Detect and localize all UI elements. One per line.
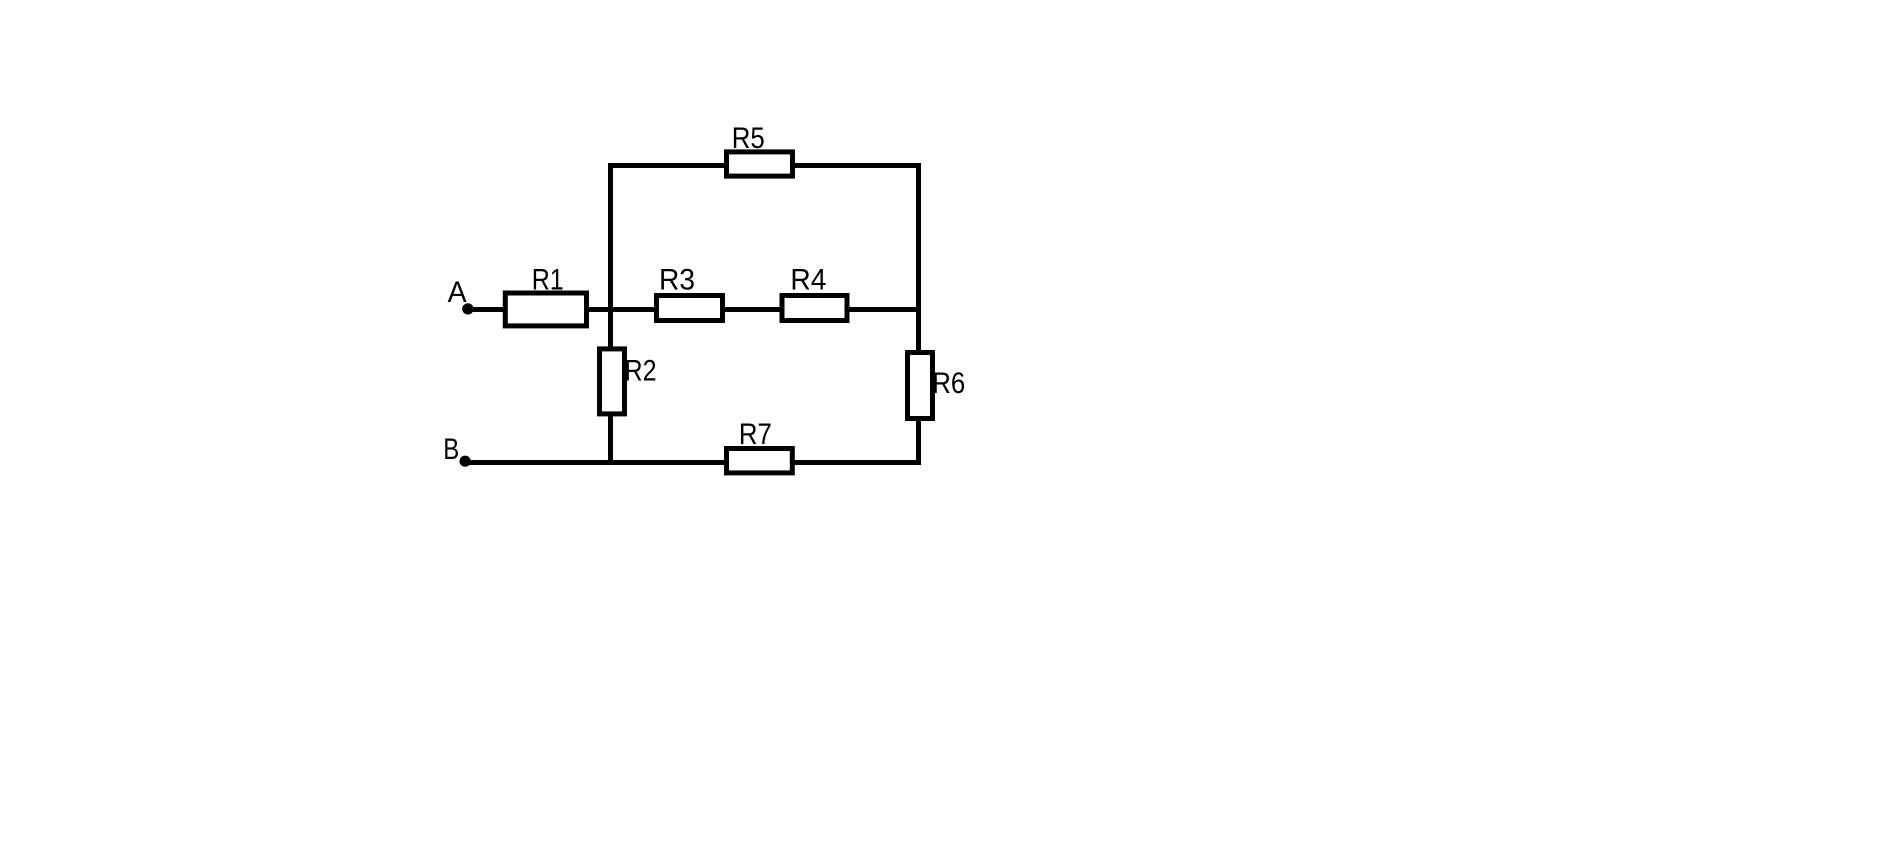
svg-text:B: B: [443, 433, 459, 466]
wire: middle horizontal rail from node A through R1, R3, R4: [468, 307, 922, 312]
resistor R3: [657, 296, 723, 321]
resistor R7: [727, 449, 793, 473]
svg-text:R5: R5: [732, 122, 765, 155]
svg-text:R7: R7: [739, 418, 772, 451]
resistor R5: [727, 152, 793, 176]
resistor R1: [505, 293, 586, 326]
svg-text:R4: R4: [790, 264, 826, 297]
resistor R2: [600, 349, 625, 414]
wire: top branch horizontal through R5: [608, 163, 921, 168]
svg-text:R3: R3: [659, 264, 695, 297]
wire: left vertical branch through R2: [608, 163, 613, 465]
wire: bottom rail from node B through R7: [465, 460, 921, 465]
terminal dot at node B: [460, 456, 471, 467]
terminal dot at node A: [462, 303, 473, 314]
resistor R4: [782, 296, 847, 321]
wire: right vertical branch through R6: [916, 163, 921, 465]
resistor R6: [908, 353, 933, 419]
svg-text:R1: R1: [532, 264, 564, 297]
svg-text:R6: R6: [932, 367, 965, 400]
svg-text:R2: R2: [625, 355, 657, 388]
svg-text:A: A: [448, 276, 467, 309]
